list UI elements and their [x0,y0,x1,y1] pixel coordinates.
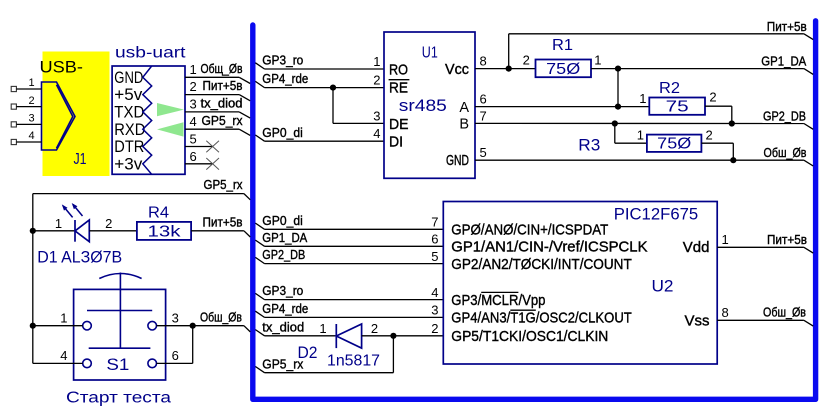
svg-text:+5v: +5v [114,86,143,104]
svg-text:4: 4 [431,285,438,300]
usb-uart pin name TXD [114,104,144,122]
wire net GP3_ro from bus to U1 pin 1 [255,53,384,69]
LED D1 [75,220,137,242]
svg-text:GP5_rx: GP5_rx [262,356,303,371]
wire net tx_diod from bus to D2 [255,319,438,336]
svg-text:U2: U2 [652,277,674,296]
svg-text:Пит+5в: Пит+5в [203,78,243,93]
svg-text:USB-: USB- [40,57,84,76]
svg-text:GP1_DA: GP1_DA [761,53,806,68]
U1 pin name B [459,117,469,133]
net label GP2_DB [763,108,806,123]
svg-text:GP4_rde: GP4_rde [262,71,308,86]
wire U2 Vss to right bus, net Общ_0в [717,305,813,327]
net label Общ_0в (U1 GND) [764,145,807,160]
wire S1 pin 6 branch [157,326,193,364]
wire usb-uart pin 1 to left bus, net Общ_Øв [185,61,250,84]
U1 pin name Vcc [445,62,469,78]
svg-text:GP0_di: GP0_di [262,125,303,140]
svg-text:5: 5 [431,249,438,264]
svg-text:Обш_Øв: Обш_Øв [763,305,806,320]
svg-text:2: 2 [709,90,716,105]
wire Vcc branch up to Pit+5v rail [509,34,814,69]
label R1 [552,37,573,54]
J1 pin 2 wire + terminal square [11,95,41,109]
svg-text:R2: R2 [659,80,680,97]
wire usb-uart pin 4 to left bus, net GP5_rx [185,113,250,136]
usb-uart pin name GND [114,69,143,87]
svg-text:1: 1 [594,53,601,68]
R3 pin number 1 [637,128,644,143]
label D2 [298,344,318,362]
svg-text:GPØ/ANØ/CIN+/ICSPDAT: GPØ/ANØ/CIN+/ICSPDAT [451,222,608,239]
wire net GP5_rx to D2 junction [255,336,393,373]
svg-text:Vdd: Vdd [683,239,710,256]
svg-text:TXD: TXD [114,104,144,122]
junction B line to R3 [612,120,618,126]
svg-text:tx_diod: tx_diod [262,319,304,334]
junction D1 row [30,228,36,234]
junction GP1_DA / R2 branch [615,66,621,72]
svg-text:1n5817: 1n5817 [327,353,380,370]
svg-text:7: 7 [480,108,487,123]
svg-text:Старт теста: Старт теста [66,389,171,406]
svg-text:1: 1 [28,77,34,89]
svg-text:GP1_DA: GP1_DA [262,230,307,245]
svg-text:RXD: RXD [114,121,145,139]
svg-text:1: 1 [373,54,380,69]
diode D2 1n5817 [336,324,443,348]
svg-text:75Ø: 75Ø [546,61,580,78]
U1 pin name DI [389,134,403,150]
svg-text:4: 4 [373,126,380,141]
U1 right pin number 6 [480,91,487,106]
U1 left pin number 1 [373,54,380,69]
wire to S1 pin 4 [33,348,83,363]
resistor R4 13k [137,222,191,241]
wire down to R3 pin1 [615,124,647,144]
U2 pin name GPØ [451,222,608,239]
svg-text:3: 3 [28,113,34,125]
U1 pin name RE with overline [389,80,410,97]
svg-text:DE: DE [389,117,409,133]
U2 pin name Vdd [683,239,710,256]
svg-text:Пит+5в: Пит+5в [767,19,807,34]
label D1 AL307B [37,248,122,266]
label USB- [40,57,84,76]
label Старт теста [66,389,171,406]
wire to D1 cathode [33,230,75,232]
svg-text:3: 3 [373,108,380,123]
U1 right pin number 8 [480,53,487,68]
wire to S1 pin 1 [30,310,83,329]
wire usb-uart pin 3 to left bus, net tx_diod [185,96,250,119]
resistor R1 750 [536,60,592,79]
svg-text:1: 1 [639,91,646,106]
label sr485 [399,96,447,115]
svg-text:2: 2 [431,321,438,336]
svg-text:Пит+5в: Пит+5в [203,214,243,229]
svg-text:1: 1 [55,216,62,231]
svg-text:+3v: +3v [114,155,143,173]
wire R4 to bus, net Пит+5в [191,231,250,237]
wire net GP0_di from bus to U1 pin 4 [255,125,384,141]
svg-text:DTR: DTR [114,138,144,156]
svg-text:GND: GND [446,153,469,169]
svg-text:GP2/AN2/TØCKI/INT/COUNT: GP2/AN2/TØCKI/INT/COUNT [451,256,632,273]
svg-text:6: 6 [480,91,487,106]
wire net GP0_di from bus to U2 pin 7 [255,213,443,230]
svg-text:DI: DI [389,134,403,150]
label S1 [106,355,129,374]
U1 left pin number 2 [373,73,380,88]
svg-text:13k: 13k [148,224,182,241]
svg-text:4: 4 [28,130,34,142]
svg-text:S1: S1 [106,355,129,374]
svg-text:3: 3 [172,310,179,325]
svg-text:6: 6 [190,149,197,164]
U2 pin name Vss [684,312,709,329]
net label GP1_DA [761,53,806,68]
svg-text:GND: GND [114,69,143,87]
R2 pin number 2 [709,90,716,105]
svg-text:4: 4 [60,348,67,363]
svg-text:2: 2 [105,216,112,231]
bus: left vertical + bottom + right vertical power/net bus [253,21,816,400]
U1 pin name RO [389,62,408,78]
svg-text:2: 2 [523,53,530,68]
svg-text:GP2_DB: GP2_DB [262,247,305,262]
svg-text:GP2_DB: GP2_DB [763,108,806,123]
RXD direction arrow (green, left) [157,122,184,136]
net label Пит+5в (top rail) [767,19,807,34]
svg-text:Пит+5в: Пит+5в [767,232,807,247]
wire S1 pin 3 to bus, net Общ_0в [157,309,251,332]
wire left vertical rail [32,194,34,364]
svg-text:D1 ALЗØ7B: D1 ALЗØ7B [37,248,122,266]
usb-uart contact zigzag [143,66,152,174]
svg-text:GP3_ro: GP3_ro [262,283,303,298]
D1 pin number 2 [105,216,112,231]
svg-text:2: 2 [373,73,380,88]
svg-text:4: 4 [190,114,197,129]
U1 left pin number 4 [373,126,380,141]
svg-text:1: 1 [60,310,67,325]
U2 pin name GP1 [451,239,647,256]
D2 pin number 1 [319,321,326,336]
svg-text:3: 3 [190,97,197,112]
svg-text:R4: R4 [148,204,169,221]
D1 pin number 1 [55,216,62,231]
svg-text:6: 6 [431,232,438,247]
label usb-uart [115,45,186,62]
IC U1 box (sr485 transceiver) [384,32,475,178]
usb-uart pin name +5v [114,86,143,104]
resistor R3 750 [647,135,702,153]
S1 contact circles [83,321,157,367]
wire U2 Vdd to right bus, net Пит+5в [717,232,813,253]
U1 pin name DE [389,117,409,133]
svg-text:GP4/AN3/T1G/OSC2/CLKOUT: GP4/AN3/T1G/OSC2/CLKOUT [451,310,632,327]
svg-text:J1: J1 [74,151,87,168]
svg-text:usb-uart: usb-uart [115,45,186,62]
svg-text:3: 3 [431,303,438,318]
svg-text:2: 2 [371,321,378,336]
wire net GP2_DB from bus to U2 pin 5 [255,247,443,264]
svg-text:75: 75 [666,98,689,115]
svg-text:RE: RE [389,81,408,97]
svg-text:Обш_Øв: Обш_Øв [764,145,807,160]
svg-text:GP5_rx: GP5_rx [204,177,243,192]
U1 right pin number 7 [480,108,487,123]
svg-text:GP3/MCLR/Vpp: GP3/MCLR/Vpp [451,292,545,309]
svg-text:R1: R1 [552,37,573,54]
microcontroller U2 box [443,202,717,365]
wire R3 pin2 down to Obsh_0v line [701,143,736,163]
label U2 [652,277,674,296]
wire R1 to right bus, net GP1_DA [591,69,813,75]
svg-text:8: 8 [722,305,729,320]
svg-text:Обш_Øв: Обш_Øв [200,309,242,324]
wire U1 Vcc to R1 [475,68,536,70]
D2 pin number 2 [371,321,378,336]
svg-text:1: 1 [722,232,729,247]
label R3 [578,135,600,154]
U1 pin name GND [446,153,469,169]
svg-text:Vcc: Vcc [445,62,469,78]
svg-text:1: 1 [319,321,326,336]
junction on A line [615,104,621,110]
U2 pin name GP2 [451,256,632,273]
svg-text:A: A [459,100,469,116]
svg-text:sr485: sr485 [399,96,447,115]
svg-text:75Ø: 75Ø [657,136,691,153]
U2 pin name GP3 [451,292,545,309]
label 1n5817 [327,353,380,370]
TXD direction arrow (green, right) [157,103,184,116]
svg-text:B: B [459,117,469,133]
usb-uart pin name +3v [114,155,143,173]
R2 pin number 1 [639,91,646,106]
wire net GP1_DA from bus to U2 pin 6 [255,230,443,247]
wire net GP3_ro from bus to U2 pin 4 [255,283,443,300]
svg-text:PIC12F675: PIC12F675 [614,204,699,223]
svg-text:2: 2 [706,128,713,143]
usb-uart pin 6 no-connect [185,149,219,170]
wire U1 GND to right bus, net Общ_0в [475,160,813,166]
svg-text:R3: R3 [578,135,600,154]
svg-text:RO: RO [389,62,408,78]
junction at Vcc branch [506,66,512,72]
wire U1 A to R2 [475,106,649,108]
label PIC12F675 [614,204,699,223]
J1 pin 4 wire + terminal square [11,130,41,144]
label R2 [659,80,680,97]
wire branch down to A line [617,69,619,107]
J1 pin 1 wire + terminal square [11,77,41,91]
label U1 [422,44,438,61]
label J1 [74,151,87,168]
svg-text:GP4_rde: GP4_rde [262,301,308,316]
usb-uart pin 5 no-connect [185,132,219,153]
R1 pin number 1 [594,53,601,68]
U1 right pin number 5 [480,145,487,160]
svg-text:Vss: Vss [684,312,709,329]
U2 pin name GP5 [451,328,608,345]
S1 plunger [87,273,152,350]
svg-text:GP5_rx: GP5_rx [202,113,243,128]
label R4 [148,204,169,221]
R3 pin number 2 [706,128,713,143]
svg-text:5: 5 [190,132,197,147]
svg-text:7: 7 [431,215,438,230]
usb-uart pin name DTR [114,138,144,156]
wire net GP4_rde from bus to U1 pin 2 with branch to DE [255,71,384,123]
wire usb-uart pin 2 to left bus, net Пит+5в [185,78,250,101]
svg-text:tx_diod: tx_diod [201,96,243,111]
D1 light arrows [62,203,83,217]
wire R2 pin2 down to GP2_DB line [705,106,735,126]
usb-uart block box [112,66,185,174]
connector J1 symbol (USB plug chevron) [42,82,76,150]
wire net GP5_rx (left loop top) [33,194,251,200]
svg-text:GP1/AN1/CIN-/Vref/ICSPCLK: GP1/AN1/CIN-/Vref/ICSPCLK [451,239,647,256]
svg-text:U1: U1 [422,44,438,61]
net label GP5_rx (left) [204,177,243,192]
svg-text:Общ_Øв: Общ_Øв [201,61,243,76]
svg-text:GP0_di: GP0_di [262,213,303,228]
wire U1 B to right bus, net GP2_DB [475,123,813,129]
U1 pin name A [459,100,469,116]
J1 pin 3 wire + terminal square [11,113,41,127]
svg-text:5: 5 [480,145,487,160]
svg-text:2: 2 [28,95,34,107]
switch S1 box [74,289,166,380]
wire net GP4_rde from bus to U2 pin 3 [255,301,443,318]
resistor R2 75 [649,98,705,116]
U2 pin name GP4 [451,310,632,327]
usb-uart pin name RXD [114,121,145,139]
R1 pin number 2 [523,53,530,68]
U1 left pin number 3 [373,108,380,123]
connector J1 yellow background [43,52,110,177]
svg-text:2: 2 [190,79,197,94]
svg-text:GP5/T1CKI/OSC1/CLKIN: GP5/T1CKI/OSC1/CLKIN [451,328,608,345]
svg-text:GP3_ro: GP3_ro [262,53,303,68]
svg-text:1: 1 [637,128,644,143]
svg-text:1: 1 [190,62,197,77]
svg-text:8: 8 [480,53,487,68]
net label Пит+5в (R4) [203,214,243,229]
svg-text:6: 6 [172,348,179,363]
